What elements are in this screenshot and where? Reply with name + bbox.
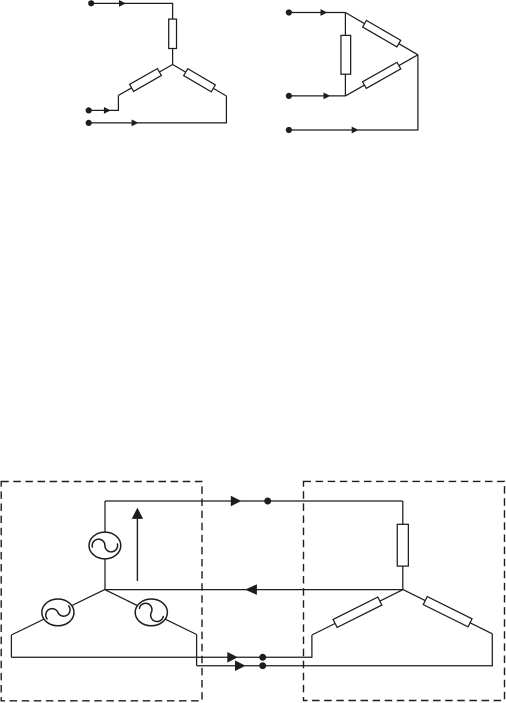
current arrow phase B: [104, 107, 111, 114]
current arrow phase A: [119, 0, 126, 7]
wire: phase A lead to top of R1: [91, 3, 172, 19]
current arrow neutral (points left): [245, 584, 257, 595]
wire: right elbow down and to phase C terminal: [89, 96, 227, 123]
current arrow phase B2: [324, 93, 331, 100]
wire: R7 bottom to load star point: [402, 566, 404, 590]
node: junction dot line C: [259, 662, 266, 669]
wire: load right leg: [403, 590, 492, 634]
current arrow phase C2: [352, 127, 359, 134]
wire: G1 bottom to source star point: [104, 559, 106, 590]
wire: phase B lead to bottom corner: [289, 95, 346, 97]
wire: star point to right elbow: [173, 65, 227, 97]
AC source G1 (top): [89, 532, 121, 559]
wire: phase A lead to top corner: [289, 12, 346, 14]
wire: load phase A vertical above R7: [402, 501, 404, 524]
current arrow line A: [231, 496, 242, 507]
node: terminal dot phase B: [86, 107, 92, 113]
resistor R1 (vertical, phase A of wye): [169, 19, 177, 48]
resistor R7 (vertical, load phase A): [397, 524, 408, 566]
wire: source left leg down to line B: [10, 635, 12, 657]
resistor R8 (load left leg): [333, 597, 382, 627]
source box (dashed): [1, 482, 202, 701]
current arrow line B: [227, 652, 238, 663]
current arrow line C: [235, 660, 246, 671]
wire: left elbow down and to phase B terminal: [89, 95, 119, 110]
wire: source left leg (star point to lower-left elbow): [11, 590, 104, 635]
node: junction dot line A: [264, 498, 271, 505]
resistor R4 (vertical, left side of delta): [341, 35, 351, 74]
resistor R3 (right diagonal of wye): [184, 69, 216, 92]
wire: line C (lower bottom) to load right leg: [197, 634, 493, 666]
AC source G2 (lower left): [42, 599, 74, 626]
resistor R2 (left diagonal of wye): [130, 69, 162, 92]
node: terminal dot phase C: [86, 120, 92, 126]
AC source G3 (lower right): [135, 599, 167, 626]
wire: delta left side (top corner to bottom corner): [344, 13, 346, 96]
wire: load left leg: [312, 590, 403, 635]
voltage reference arrow (up) inside source box: [136, 518, 138, 581]
wire: delta upper-right side: [345, 13, 418, 55]
wire: right corner down and phase C lead: [289, 55, 418, 130]
node: terminal dot phase A2: [286, 9, 292, 15]
resistor R6 (lower-right side of delta): [363, 62, 401, 88]
current arrow phase A2: [321, 9, 328, 16]
wire: R1 bottom to star point: [172, 49, 174, 65]
resistor R9 (load right leg): [423, 597, 472, 627]
node: terminal dot phase B2: [286, 93, 292, 99]
wire: delta lower-right side: [345, 55, 418, 96]
wire: source phase A vertical above G1: [104, 501, 106, 532]
current arrow phase C: [132, 120, 139, 127]
resistor R5 (upper-right side of delta): [363, 20, 401, 46]
wire: star point to left elbow: [118, 65, 172, 96]
wire: source right leg down to line C: [196, 635, 198, 666]
wire: source right leg (star point to elbow): [105, 590, 197, 635]
wire: line B (upper bottom) to load left leg: [11, 635, 312, 657]
node: junction dot line B: [259, 654, 266, 661]
load box (dashed): [304, 481, 505, 700]
wire: neutral line (middle) from load star to source star: [105, 589, 403, 591]
node: terminal dot phase C2: [286, 127, 292, 133]
wire: line A (top) from source to load: [105, 500, 403, 502]
node: terminal dot phase A: [88, 0, 94, 6]
